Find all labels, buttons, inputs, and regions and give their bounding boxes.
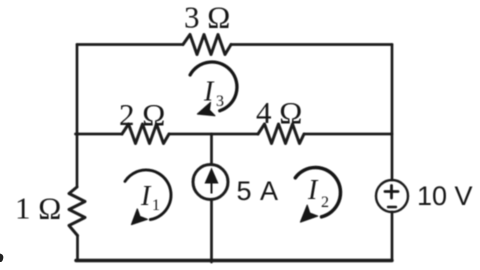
svg-text:1 Ω: 1 Ω: [15, 191, 61, 226]
svg-text:I: I: [140, 181, 152, 212]
svg-text:10 V: 10 V: [417, 181, 473, 211]
svg-text:4 Ω: 4 Ω: [256, 95, 302, 130]
svg-text:3 Ω: 3 Ω: [184, 0, 230, 35]
svg-text:A: A: [260, 176, 278, 206]
svg-text:1: 1: [152, 197, 160, 214]
svg-text:5: 5: [237, 176, 252, 206]
svg-text:I: I: [307, 175, 319, 206]
svg-text:3: 3: [216, 93, 224, 110]
svg-text:2: 2: [321, 194, 329, 211]
svg-text:I: I: [203, 77, 215, 108]
svg-text:2 Ω: 2 Ω: [119, 97, 165, 132]
